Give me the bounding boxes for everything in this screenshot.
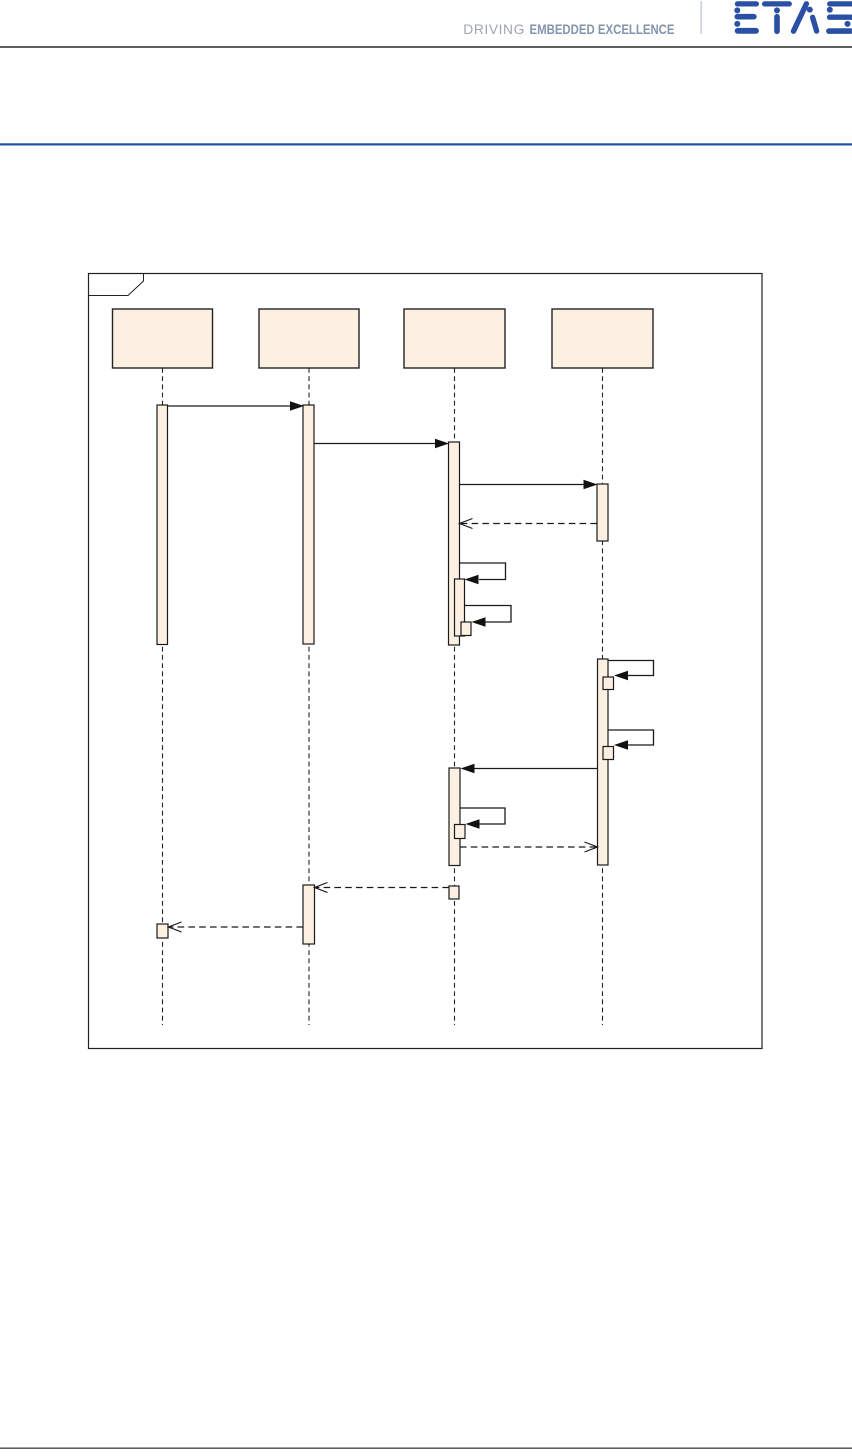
svg-text:EMBEDDED EXCELLENCE: EMBEDDED EXCELLENCE	[530, 22, 675, 37]
svg-text:DRIVING: DRIVING	[463, 22, 524, 37]
